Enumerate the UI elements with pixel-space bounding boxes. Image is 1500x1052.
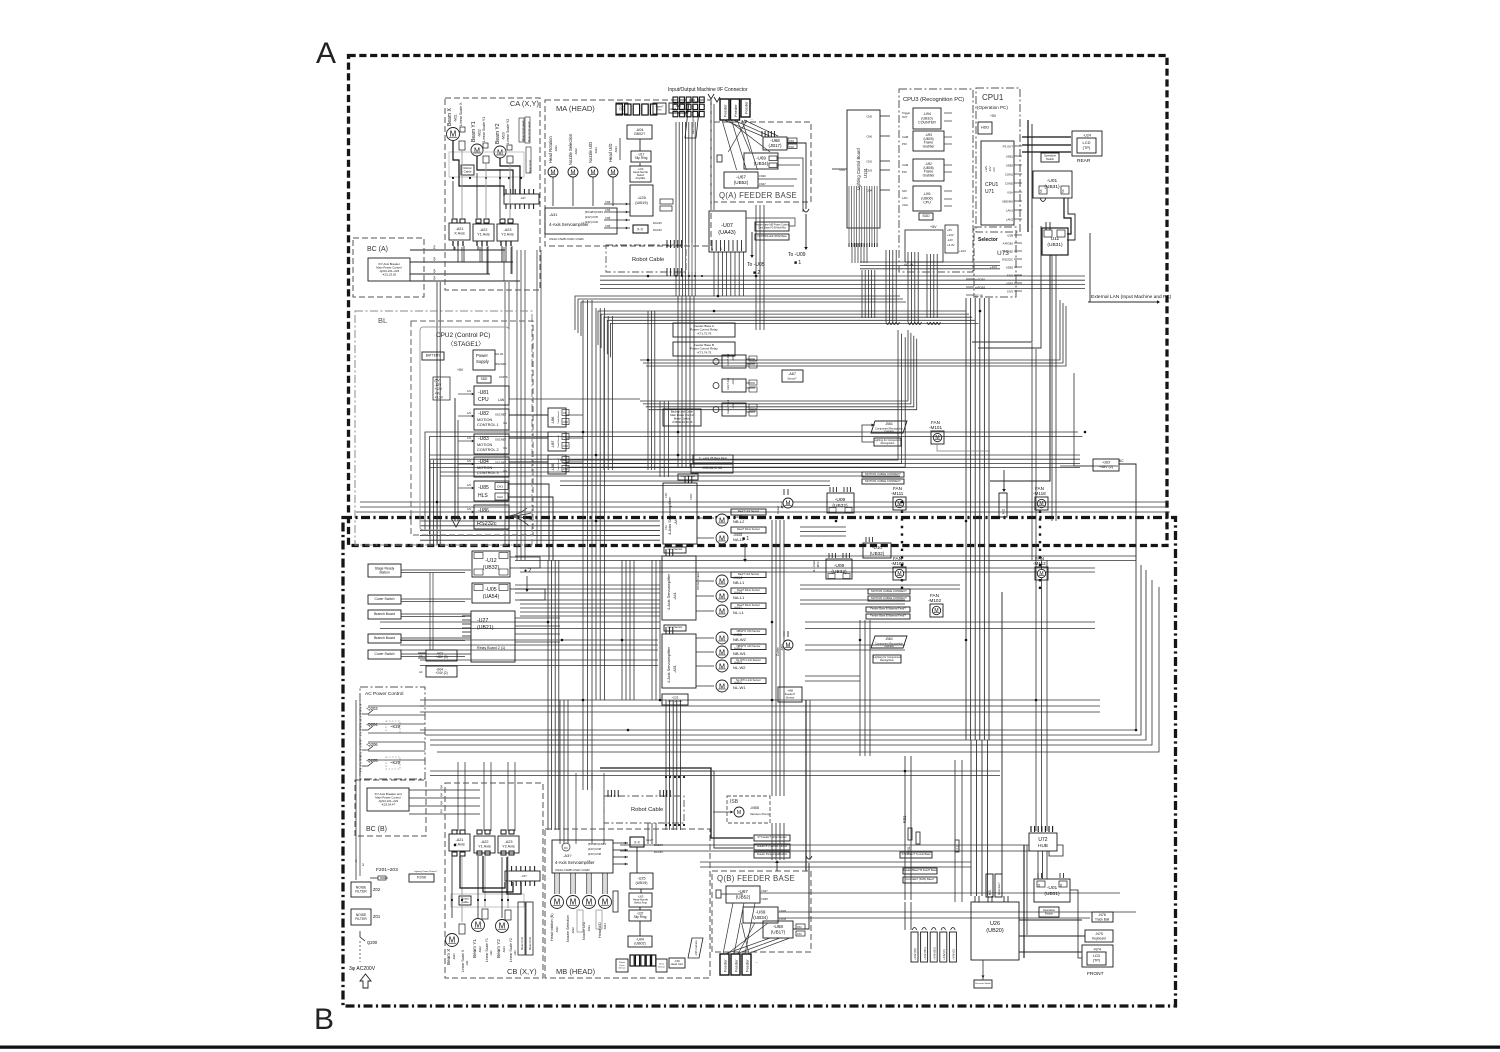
svg-text:Beam Y2: Beam Y2: [496, 939, 501, 958]
svg-text:-U91: -U91: [923, 192, 931, 196]
svg-text:-B61: -B61: [885, 637, 893, 641]
svg-text:Head rotation (N): Head rotation (N): [550, 913, 554, 941]
svg-text:Slip Ring: Slip Ring: [635, 156, 648, 160]
svg-text:COM1: COM1: [1005, 173, 1014, 177]
svg-text:CN5: CN5: [866, 115, 872, 119]
svg-text:AC Power Control: AC Power Control: [365, 691, 403, 697]
svg-text:Y2 Axis: Y2 Axis: [501, 233, 514, 237]
svg-text:Sensor: Sensor: [619, 967, 626, 970]
svg-text:-U1?: -U1?: [521, 874, 527, 878]
svg-text:Trigger: Trigger: [902, 111, 910, 115]
svg-text:NL-L1: NL-L1: [733, 610, 745, 615]
svg-text:-C35 Camera: -C35 Camera: [694, 940, 698, 956]
svg-text:Input Sensor: Input Sensor: [681, 474, 696, 478]
svg-text:3: 3: [433, 276, 436, 281]
svg-text:+12V: +12V: [947, 233, 954, 237]
svg-text:DC24V: DC24V: [653, 228, 662, 232]
svg-text:Branch Board: Branch Board: [374, 612, 395, 616]
svg-text:TRIG: TRIG: [619, 108, 625, 111]
svg-text:USB3: USB3: [1006, 282, 1014, 286]
svg-text:M: M: [591, 170, 596, 176]
svg-text:CONTROL 1: CONTROL 1: [477, 423, 499, 427]
svg-text:[24V] CN8: [24V] CN8: [588, 847, 601, 851]
svg-text:Motor/Unit: Motor/Unit: [528, 937, 532, 950]
svg-text:SS: SS: [1060, 883, 1063, 887]
svg-text:K3: K3: [988, 890, 992, 895]
svg-text:Rear? Unit Sensor: Rear? Unit Sensor: [738, 572, 759, 576]
svg-text:-M22: -M22: [478, 129, 482, 137]
svg-text:Rear? Drive Sensor: Rear? Drive Sensor: [737, 527, 760, 531]
svg-text:Rear? Drive Sensor: Rear? Drive Sensor: [737, 588, 760, 592]
svg-text:Pressure Switch: Pressure Switch: [975, 982, 992, 985]
svg-text:CN5: CN5: [605, 200, 611, 204]
svg-text:CN3: CN3: [866, 169, 872, 173]
svg-text:-U12: -U12: [485, 558, 496, 564]
svg-text:Head U/D: Head U/D: [608, 144, 613, 162]
svg-text:-A67: -A67: [788, 372, 796, 376]
svg-text:-A6J: -A6J: [731, 354, 735, 361]
svg-text:Linear Scale Y2: Linear Scale Y2: [506, 119, 510, 144]
svg-text:-M101: -M101: [929, 425, 942, 430]
svg-text:H1: H1: [1001, 508, 1006, 514]
svg-text:+12V: +12V: [959, 249, 966, 253]
svg-text:CAM: CAM: [902, 163, 909, 167]
svg-text:Touch Board: Touch Board: [557, 458, 560, 471]
svg-text:3: 3: [362, 863, 364, 867]
svg-text:Motor/Unit: Motor/Unit: [520, 937, 524, 950]
svg-text:Switch: Switch: [1045, 911, 1054, 915]
svg-text:M: M: [934, 608, 938, 614]
svg-text:Kxx: Kxx: [658, 108, 663, 111]
svg-text:LAN: LAN: [498, 398, 505, 402]
svg-text:LAN2: LAN2: [1006, 218, 1013, 222]
svg-text:CN2A CN2B CN2C CN2D: CN2A CN2B CN2C CN2D: [549, 237, 585, 241]
svg-text:CONS: CONS: [499, 375, 508, 379]
svg-text:M: M: [935, 435, 939, 441]
svg-text:To -U05: To -U05: [747, 262, 765, 268]
svg-text:Feeder? Asst: Feeder? Asst: [727, 400, 730, 414]
svg-text:3: 3: [440, 793, 443, 798]
svg-text:Controller? (FMS) Base?: Controller? (FMS) Base?: [906, 877, 935, 881]
svg-text:-M21: -M21: [452, 953, 456, 960]
svg-text:a-RGB3: a-RGB3: [975, 286, 986, 290]
svg-text:-U09: -U09: [835, 497, 846, 503]
svg-text:Power: Power: [619, 961, 625, 964]
svg-text:Beam X: Beam X: [446, 949, 451, 965]
svg-text:+24V (2): +24V (2): [435, 671, 447, 675]
svg-text:-M32: -M32: [574, 148, 578, 155]
svg-text:Z01: Z01: [373, 914, 381, 919]
svg-text:CPU2 (Control PC): CPU2 (Control PC): [436, 332, 490, 339]
svg-text:-M34: -M34: [614, 146, 618, 153]
svg-text:12V: 12V: [467, 390, 472, 393]
svg-text:Beam Y1: Beam Y1: [472, 939, 477, 958]
svg-text:-M31: -M31: [555, 926, 559, 933]
svg-text:A-RGB1: A-RGB1: [1003, 242, 1014, 246]
svg-text:(UB10): (UB10): [921, 116, 932, 120]
svg-text:CN5: CN5: [605, 224, 611, 228]
svg-text:-A22: -A22: [480, 840, 488, 844]
svg-text:(TP): (TP): [1093, 959, 1101, 963]
svg-text:XX0: XX0: [797, 933, 802, 936]
svg-text:Drive: Drive: [619, 964, 625, 967]
svg-text:-M55: -M55: [750, 805, 760, 810]
svg-text:-U67: -U67: [736, 174, 746, 179]
svg-text:12V: 12V: [467, 460, 472, 463]
svg-text:NB-W1: NB-W1: [733, 651, 747, 656]
svg-text:M: M: [786, 501, 791, 507]
svg-text:Feeder: Feeder: [744, 101, 749, 114]
svg-text:12V: 12V: [467, 437, 472, 440]
svg-text:3: 3: [440, 785, 443, 790]
svg-text:Head U/D: Head U/D: [598, 922, 602, 938]
svg-text:SS: SS: [1061, 189, 1065, 193]
svg-text:CAM: CAM: [902, 135, 909, 139]
svg-text:(UB32): (UB32): [483, 565, 500, 571]
svg-text:NB-L2: NB-L2: [733, 519, 745, 524]
svg-text:Y2 Axis: Y2 Axis: [502, 845, 515, 849]
svg-text:CN5: CN5: [605, 208, 611, 212]
svg-text:~K29: ~K29: [390, 760, 401, 765]
svg-text:+5V: +5V: [457, 368, 464, 372]
svg-text:MOTION: MOTION: [477, 418, 492, 422]
svg-text:Nozzle Selection: Nozzle Selection: [568, 133, 573, 165]
svg-text:(UB32): (UB32): [832, 503, 848, 509]
svg-text:+5V: +5V: [930, 225, 937, 229]
svg-text:-M32: -M32: [571, 927, 575, 934]
svg-text:Feeder: Feeder: [723, 104, 728, 117]
svg-text:-B61: -B61: [885, 422, 893, 426]
svg-text:CN5: CN5: [605, 216, 611, 220]
svg-text:USB1: USB1: [1006, 155, 1014, 159]
svg-text:Y1 Axis: Y1 Axis: [477, 233, 490, 237]
svg-text:-12V: -12V: [947, 238, 953, 242]
svg-text:RS232C: RS232C: [1002, 258, 1013, 262]
svg-text:M: M: [786, 643, 791, 649]
svg-text:■ 1: ■ 1: [794, 260, 801, 266]
svg-text:CN2A CN2B CN2C CN2D: CN2A CN2B CN2C CN2D: [555, 868, 591, 872]
svg-text:Brake Control: Brake Control: [674, 417, 691, 421]
svg-text:Rear? Unit Sensor: Rear? Unit Sensor: [738, 509, 759, 513]
svg-text:4-Axis Servoamplifier: 4-Axis Servoamplifier: [555, 860, 595, 865]
svg-text:-A41: -A41: [673, 592, 677, 600]
svg-text:HDD: HDD: [981, 126, 989, 130]
svg-text:FRONT: FRONT: [1087, 971, 1104, 977]
svg-text:-U82: -U82: [478, 411, 489, 417]
svg-text:-U27: -U27: [477, 618, 488, 624]
svg-text:DC24V: DC24V: [654, 850, 663, 854]
svg-text:-U69: -U69: [756, 155, 766, 160]
svg-text:Grabber: Grabber: [923, 144, 936, 148]
svg-text:MOTION: MOTION: [477, 466, 492, 470]
svg-text:CN2: CN2: [563, 421, 568, 424]
svg-text:[5V/48V]CNP1: [5V/48V]CNP1: [585, 210, 604, 214]
svg-text:-U22: -U22: [489, 950, 493, 956]
svg-text:Robot Cable: Robot Cable: [631, 807, 663, 813]
svg-text:REAR: REAR: [1077, 158, 1091, 164]
svg-text:X.. +Axis VB Regs Reno: X.. +Axis VB Regs Reno: [699, 456, 728, 460]
svg-text:ISB: ISB: [730, 799, 739, 805]
svg-text:External LAN (Input Machine an: External LAN (Input Machine and PC): [1091, 294, 1172, 300]
svg-text:Keyboard: Keyboard: [1092, 937, 1106, 941]
svg-text:Linear Scale X: Linear Scale X: [461, 949, 465, 972]
svg-text:Nozzle U/D: Nozzle U/D: [582, 921, 586, 940]
svg-text:+5V (2) AC: +5V (2) AC: [668, 699, 684, 703]
svg-text:CPU: CPU: [923, 201, 931, 205]
svg-text:K31: K31: [902, 815, 907, 823]
svg-text:Robot Cable: Robot Cable: [632, 257, 664, 263]
svg-text:-A6J: -A6J: [731, 402, 735, 409]
svg-text:-A21: -A21: [455, 838, 463, 842]
svg-text:Track Ball: Track Ball: [1095, 918, 1109, 922]
svg-text:-U05: -U05: [485, 587, 496, 593]
svg-text:VG: VG: [503, 446, 507, 450]
svg-text:-M5?: -M5?: [780, 502, 784, 509]
svg-text:-A3?: -A3?: [563, 853, 572, 858]
svg-text:Vacuum Pump: Vacuum Pump: [750, 812, 770, 816]
svg-text:LAN1: LAN1: [1006, 209, 1013, 213]
svg-text:-M33: -M33: [594, 147, 598, 154]
svg-text:F201~203: F201~203: [376, 867, 398, 873]
svg-text:-M112: -M112: [1033, 561, 1046, 566]
svg-text:XX0: XX0: [789, 145, 794, 149]
svg-text:Conn? Asst: Conn? Asst: [727, 377, 730, 390]
svg-text:NB/W?1 U/D Sensor: NB/W?1 U/D Sensor: [737, 629, 761, 633]
svg-text:-U88: -U88: [551, 464, 555, 471]
svg-text:Touch Board: Touch Board: [557, 411, 560, 424]
svg-text:..: ..: [750, 100, 752, 105]
svg-text:-U83: -U83: [478, 436, 489, 442]
svg-text:AC: AC: [419, 654, 423, 658]
svg-text:Motor/Unit Head: Motor/Unit Head: [521, 120, 525, 141]
svg-text:Linear Scale Y1: Linear Scale Y1: [482, 117, 486, 142]
svg-text:(UB32): (UB32): [831, 569, 847, 575]
svg-text:CONTROL 2: CONTROL 2: [477, 448, 499, 452]
svg-text:-U23: -U23: [513, 950, 517, 956]
svg-text:Cable: Cable: [464, 169, 472, 173]
svg-text:CN: CN: [563, 412, 567, 415]
svg-text:CONTROL 3: CONTROL 3: [477, 471, 499, 475]
svg-text:CONTROLLER (FMS) Base: CONTROLLER (FMS) Base: [757, 235, 787, 238]
svg-text:(UB19): (UB19): [635, 881, 648, 885]
svg-text:-A4?: -A4?: [674, 517, 678, 525]
svg-text:~K28: ~K28: [390, 724, 401, 729]
svg-text:VG: VG: [503, 421, 507, 425]
svg-text:CN: CN: [563, 459, 567, 462]
svg-text:4-Axis Servoamplifier: 4-Axis Servoamplifier: [549, 222, 589, 227]
svg-text:Camera: Camera: [884, 644, 894, 648]
svg-text:AC: AC: [419, 670, 423, 674]
svg-text:Cover Switch: Cover Switch: [375, 652, 395, 656]
svg-text:(UA54): (UA54): [483, 594, 500, 600]
svg-text:-K35,36,37,58: -K35,36,37,58: [702, 466, 722, 470]
svg-text:M: M: [737, 810, 741, 816]
svg-text:AC-IN: AC-IN: [904, 263, 914, 267]
svg-text:(UB52): (UB52): [736, 894, 751, 899]
svg-text:-U25: -U25: [637, 877, 645, 881]
svg-text:-K71,72,76: -K71,72,76: [697, 331, 712, 335]
svg-text:Feeder: Feeder: [745, 959, 750, 972]
svg-text:Relay Board 2 (1): Relay Board 2 (1): [477, 646, 505, 650]
svg-text:-M53: -M53: [816, 561, 820, 568]
svg-text:Linear Scale Y2: Linear Scale Y2: [509, 938, 513, 962]
svg-text:Beam Y2: Beam Y2: [495, 123, 501, 144]
svg-text:+12V: +12V: [990, 265, 997, 269]
svg-text:+24V (B2): +24V (B2): [932, 947, 936, 960]
svg-text:PIO: PIO: [902, 170, 908, 174]
svg-text:NL-W2: NL-W2: [733, 665, 746, 670]
svg-text:...: ...: [755, 959, 758, 964]
svg-text:Feeder Base B Material Feed?: Feeder Base B Material Feed?: [870, 614, 906, 618]
svg-text:Q(A) FEEDER BASE: Q(A) FEEDER BASE: [719, 191, 797, 200]
svg-text:A-RGB2: A-RGB2: [1003, 250, 1014, 254]
svg-text:HLS: HLS: [478, 493, 488, 499]
svg-text:CN1: CN1: [665, 525, 668, 530]
svg-text:-U86: -U86: [478, 508, 489, 514]
svg-text:KBD/MS: KBD/MS: [1002, 200, 1013, 204]
svg-text:COM2: COM2: [1005, 182, 1014, 186]
svg-text:-U07: -U07: [721, 223, 733, 229]
svg-text:M: M: [897, 571, 901, 577]
svg-text:CN28: CN28: [761, 897, 768, 901]
svg-text:-M21: -M21: [454, 114, 458, 122]
svg-text:DC24V: DC24V: [653, 221, 662, 225]
svg-text:Rear? Drive Sensor: Rear? Drive Sensor: [737, 603, 760, 607]
svg-text:12V: 12V: [467, 412, 472, 415]
svg-text:Conn? Asst: Conn? Asst: [727, 353, 730, 366]
svg-text:A: A: [316, 37, 336, 70]
svg-text:Q200: Q200: [367, 940, 378, 945]
svg-text:-K73,74,75: -K73,74,75: [697, 350, 712, 354]
svg-text:Amplifier: Amplifier: [635, 176, 645, 180]
svg-text:[24V] CN6: [24V] CN6: [585, 220, 598, 224]
svg-text:Conn?: Conn?: [646, 839, 654, 842]
svg-text:Select Amp: Select Amp: [634, 901, 648, 905]
svg-text:LAN: LAN: [902, 196, 907, 200]
svg-text:X-X: X-X: [634, 841, 640, 845]
svg-text:+24V (F): +24V (F): [942, 949, 946, 960]
svg-text:-U1?: -U1?: [520, 196, 526, 200]
svg-text:Grabber: Grabber: [923, 173, 936, 177]
svg-text:B: B: [314, 1003, 334, 1036]
svg-text:-M118: -M118: [1033, 491, 1046, 496]
svg-text:3φ AC200V: 3φ AC200V: [349, 966, 376, 972]
svg-text:M: M: [551, 170, 556, 176]
svg-text:a-RGB2: a-RGB2: [975, 278, 986, 282]
svg-text:Head Cam: Head Cam: [671, 962, 683, 966]
svg-text:Lighting Control Board: Lighting Control Board: [856, 148, 861, 190]
svg-text:(UB34): (UB34): [753, 915, 768, 920]
svg-text:Motor/Unit: Motor/Unit: [528, 160, 532, 173]
svg-text:-U85: -U85: [478, 485, 489, 491]
svg-text:DC-IN: DC-IN: [975, 294, 983, 298]
svg-text:Input Sensor: Input Sensor: [668, 547, 683, 551]
svg-text:Recognition: Recognition: [880, 658, 894, 662]
svg-text:+3.3V: +3.3V: [435, 396, 444, 400]
svg-text:+24V (M): +24V (M): [913, 948, 917, 960]
svg-text:. . .: . . .: [781, 941, 785, 945]
svg-text:Linear Scale Y1: Linear Scale Y1: [485, 938, 489, 962]
svg-text:CN2: CN2: [563, 445, 568, 448]
svg-text:CN: CN: [563, 436, 567, 439]
svg-text:SSCNET: SSCNET: [495, 413, 507, 417]
svg-text:Motor/Unit Head: Motor/Unit Head: [527, 121, 531, 142]
svg-text:M: M: [571, 170, 576, 176]
svg-text:Z02: Z02: [373, 887, 381, 892]
svg-text:NA-L1: NA-L1: [733, 595, 745, 600]
svg-text:4-Axis Servoamplifier: 4-Axis Servoamplifier: [667, 573, 671, 610]
svg-text:(JB17): (JB17): [769, 143, 782, 148]
svg-text:BL: BL: [378, 316, 387, 325]
svg-text:X? Feeder? To-sink Base: X? Feeder? To-sink Base: [901, 852, 931, 856]
svg-text:-A6J: -A6J: [731, 378, 735, 385]
svg-text:NL-W1: NL-W1: [733, 685, 746, 690]
svg-text:VGA: VGA: [902, 203, 908, 207]
svg-text:Linear Scale X: Linear Scale X: [459, 102, 463, 126]
svg-text:-M22: -M22: [478, 946, 482, 953]
svg-text:2: 2: [433, 245, 436, 250]
svg-text:(Operation PC): (Operation PC): [977, 105, 1008, 110]
svg-text:BC (A): BC (A): [367, 246, 388, 253]
svg-text:-M102: -M102: [928, 598, 941, 603]
svg-text:CN2: CN2: [563, 468, 568, 471]
svg-text:CN26: CN26: [759, 174, 766, 178]
svg-text:-U81: -U81: [478, 390, 489, 396]
svg-text:SS: SS: [1039, 189, 1043, 193]
svg-text:USB2: USB2: [1006, 266, 1014, 270]
svg-text:MOTION CABLE CONNECT: MOTION CABLE CONNECT: [871, 596, 907, 600]
svg-text:-U67: -U67: [738, 889, 748, 894]
svg-text:-U21: -U21: [465, 960, 469, 966]
svg-text:Sensor?: Sensor?: [788, 378, 798, 381]
svg-text:CN27: CN27: [759, 182, 766, 186]
svg-text:-A31: -A31: [549, 212, 558, 217]
svg-text:CPU1: CPU1: [985, 182, 999, 188]
svg-text:2F: 2F: [711, 247, 714, 250]
svg-text:2: 2: [440, 809, 443, 814]
svg-text:-M105: -M105: [891, 561, 904, 566]
svg-text:(UB17): (UB17): [771, 929, 786, 934]
svg-text:Feeder: Feeder: [733, 104, 738, 117]
svg-text:U26: U26: [990, 921, 1000, 927]
svg-text:M: M: [611, 170, 616, 176]
svg-text:+5V: +5V: [992, 167, 996, 172]
svg-text:3: 3: [440, 801, 443, 806]
svg-text:Feeder: Feeder: [723, 959, 728, 972]
svg-text:SSCNET: SSCNET: [495, 461, 507, 465]
svg-text:-U69: -U69: [756, 909, 766, 914]
svg-text:LCD: LCD: [1093, 954, 1101, 958]
svg-text:-A22: -A22: [479, 228, 487, 232]
svg-text:HUB: HUB: [1038, 843, 1048, 848]
svg-text:X Axis: X Axis: [454, 232, 465, 236]
svg-text:CN2B: CN2B: [779, 909, 786, 913]
svg-text:CN6: CN6: [866, 135, 872, 139]
svg-text:(UB19): (UB19): [635, 200, 648, 205]
svg-text:Detection?: Detection?: [997, 882, 1001, 895]
svg-text:MOTION CABLE CONNECT: MOTION CABLE CONNECT: [871, 589, 907, 593]
svg-text:FILTER: FILTER: [355, 917, 367, 921]
svg-text:USB2: USB2: [1006, 164, 1014, 168]
svg-text:(UB21): (UB21): [477, 625, 494, 631]
svg-text:Recognition: Recognition: [881, 441, 895, 445]
svg-text:F200: F200: [417, 875, 427, 880]
svg-text:-M23: -M23: [502, 946, 506, 953]
svg-text:-N76: -N76: [1098, 913, 1106, 917]
svg-text:NB-L1: NB-L1: [733, 580, 745, 585]
svg-text:-A21: -A21: [455, 227, 463, 231]
svg-text:-K38,40,49,50,66: -K38,40,49,50,66: [672, 420, 693, 424]
